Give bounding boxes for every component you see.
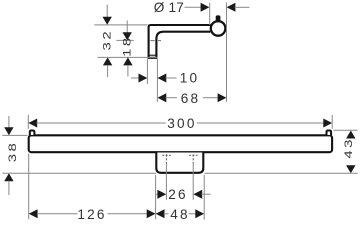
dimension 48: line left segment bbox=[164, 213, 169, 215]
dimension 32: upper tail line bbox=[106, 5, 108, 18]
extension line at plate right face (for 10 and 68) bbox=[156, 59, 158, 102]
extension line at rail left end (for 126) bbox=[28, 154, 30, 220]
dimension 26: right-pointing arrow bbox=[157, 190, 166, 199]
stopper stub on top of pin bbox=[216, 15, 221, 22]
left end stopper knob bbox=[30, 131, 35, 136]
plate bottom extension line right (for 43) bbox=[205, 172, 358, 174]
svg-text:300: 300 bbox=[167, 116, 196, 131]
dimension 32: up arrow at bottom face bbox=[103, 57, 112, 65]
dimension Ø17: leader line right bbox=[235, 6, 250, 8]
svg-text:126: 126 bbox=[77, 207, 106, 222]
svg-text:38: 38 bbox=[6, 141, 18, 163]
dimension Ø17: right-pointing arrow at left tangent bbox=[201, 3, 210, 12]
dimension 38: lower tail line bbox=[8, 181, 10, 195]
dimension 18: upper tail line bbox=[126, 20, 128, 33]
dimension 126: right-pointing arrow bbox=[147, 209, 156, 218]
dimension 10: left-pointing arrow bbox=[158, 74, 167, 83]
dimension 48: right-pointing arrow bbox=[195, 209, 204, 218]
dimension 300: left extension line bbox=[27, 115, 29, 129]
dimension 300: left-pointing arrow bbox=[28, 119, 37, 128]
dimension 43: down arrow at plate bottom bbox=[346, 165, 355, 173]
roll pin circle (side view, Ø17) bbox=[211, 21, 226, 36]
bracket outline (wall plate + arm, side view) bbox=[149, 25, 211, 58]
svg-text:48: 48 bbox=[170, 207, 190, 222]
svg-text:10: 10 bbox=[180, 71, 200, 86]
dimension 300: right extension line bbox=[331, 115, 333, 129]
dimension 126: line right segment bbox=[108, 213, 148, 215]
dimension 26: left-pointing arrow bbox=[193, 190, 202, 199]
dimension Ø17: leader line left bbox=[185, 6, 203, 8]
dimension Ø17: extension line at circle left tangent bbox=[209, 3, 211, 25]
dimension 68: right tail line bbox=[203, 97, 219, 99]
svg-text:68: 68 bbox=[181, 91, 201, 106]
dimension 38: up arrow at plate bottom bbox=[4, 173, 13, 181]
svg-text:Ø 17: Ø 17 bbox=[154, 0, 184, 15]
dimension 300: right-pointing arrow bbox=[323, 119, 332, 128]
extension line at plate left face (for 10) bbox=[146, 59, 148, 84]
dimension 48: left-pointing arrow bbox=[156, 209, 165, 218]
screw hole center mark (dash-dot) on wall plate bbox=[150, 40, 161, 42]
dimension 10: right tail line bbox=[166, 77, 177, 79]
dimension 18: lower tail line bbox=[127, 65, 129, 77]
dimension 68: right-pointing arrow bbox=[218, 93, 227, 102]
bottom face extension line (for 32 and 18) bbox=[98, 56, 158, 58]
dimension 126: left-pointing arrow bbox=[29, 209, 38, 218]
dimension 126: line left segment bbox=[37, 213, 78, 215]
extension line below right screw hole (for 26) bbox=[192, 164, 194, 200]
dimension 68: left tail line bbox=[166, 97, 178, 99]
rail bar outline (front view, 300 long) bbox=[29, 135, 332, 152]
dimension 10: right-pointing arrow bbox=[139, 74, 148, 83]
dimension 300: line left segment bbox=[36, 122, 165, 124]
plate bottom extension line left (for 38) bbox=[2, 172, 156, 174]
dimension 10: left tail line bbox=[131, 77, 140, 79]
dimension 26: left tail line bbox=[156, 193, 158, 195]
knob top extension line (for 43) bbox=[334, 129, 358, 131]
dimension 38: upper tail line bbox=[8, 116, 10, 128]
dimension 43: up arrow at knob top bbox=[346, 131, 355, 139]
dimension 38: down arrow at rail top bbox=[4, 127, 13, 135]
svg-text:18: 18 bbox=[121, 35, 133, 57]
hole axis extension line (for 18) bbox=[116, 39, 133, 41]
svg-text:43: 43 bbox=[342, 137, 354, 159]
extension line at plate left edge (for 126 / 48) bbox=[155, 175, 157, 220]
left screw hole center mark (dash-dot cross) bbox=[162, 154, 170, 156]
dimension 32: lower tail line bbox=[107, 65, 109, 77]
right end stopper knob bbox=[327, 131, 332, 136]
rail top extension line (for 38) bbox=[2, 134, 27, 136]
dimension Ø17: left-pointing arrow at right tangent bbox=[227, 3, 236, 12]
svg-text:32: 32 bbox=[100, 29, 112, 51]
dimension 26: right tail line bbox=[201, 193, 210, 195]
wall mounting plate (front view) bbox=[156, 153, 203, 173]
extension line at circle right tangent (shared by Ø17 and 68) bbox=[226, 3, 228, 102]
dimension 18: up arrow at bottom face bbox=[123, 57, 132, 65]
right screw hole center mark (dash-dot cross) bbox=[189, 154, 197, 156]
extension line below left screw hole (for 26) bbox=[165, 164, 167, 200]
top face extension line (for 32) bbox=[94, 24, 147, 26]
dimension 300: line right segment bbox=[197, 122, 324, 124]
extension line at plate right edge (for 48) bbox=[203, 175, 205, 220]
svg-text:26: 26 bbox=[168, 187, 188, 202]
dimension 48: line right segment bbox=[189, 213, 197, 215]
wall plate bottom seam line (side view) bbox=[149, 54, 156, 56]
dimension 18: down arrow at hole axis bbox=[123, 32, 132, 40]
dimension 68: left-pointing arrow bbox=[158, 93, 167, 102]
dimension 32: down arrow at top face bbox=[103, 17, 112, 25]
